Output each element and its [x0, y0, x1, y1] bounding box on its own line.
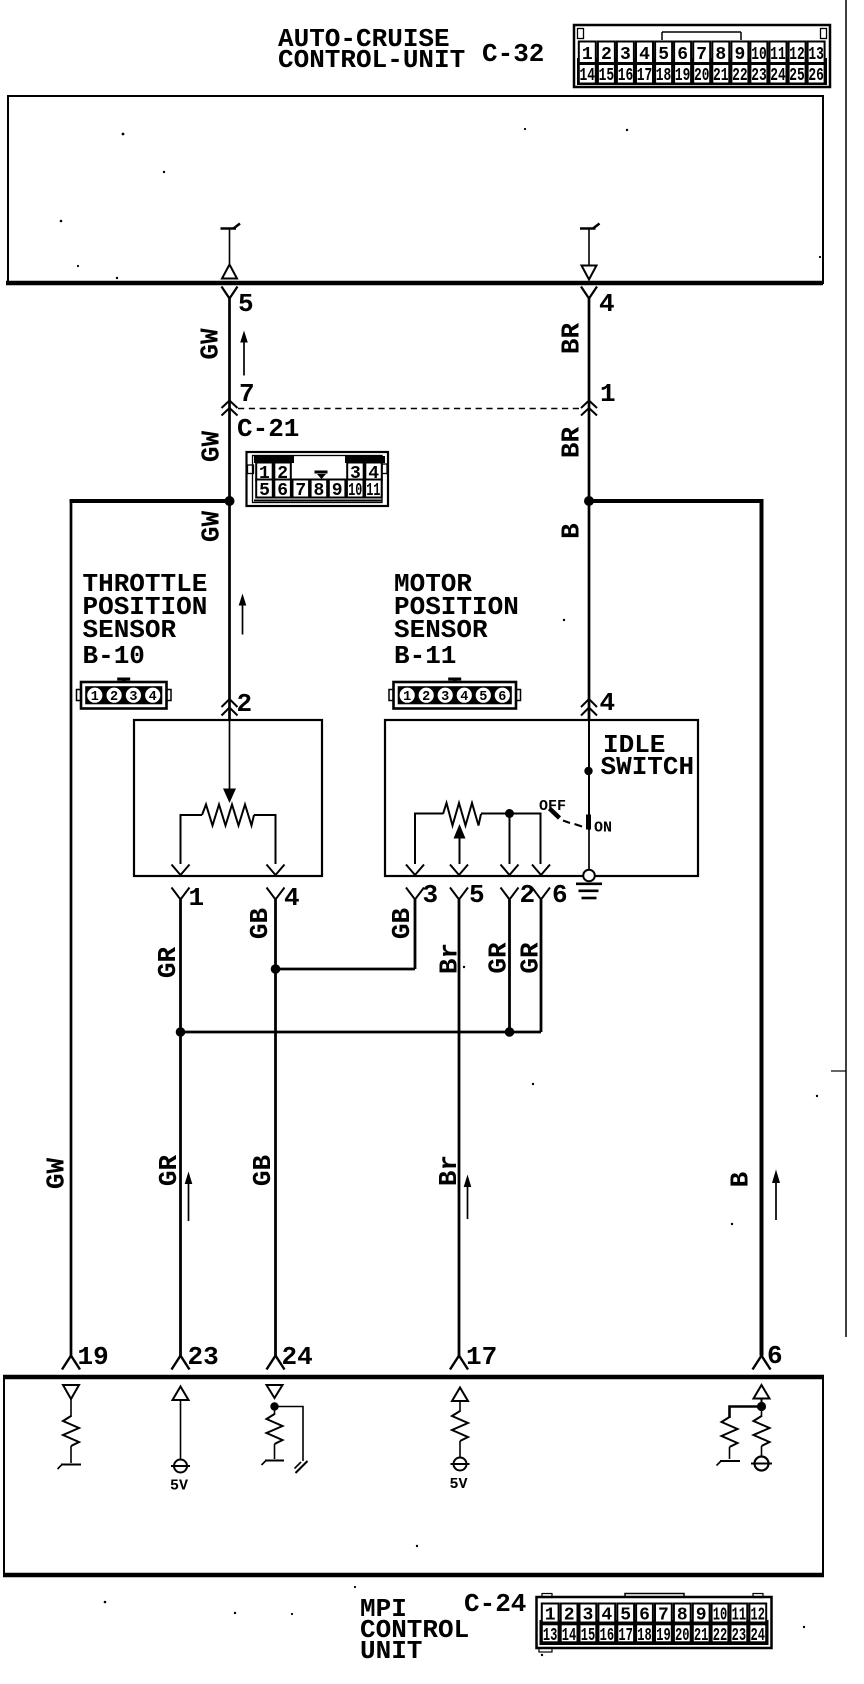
svg-text:GR: GR — [153, 947, 183, 979]
wire below resistor 17 — [459, 1441, 461, 1457]
junction dot GR link right — [505, 1027, 515, 1037]
wire pot right leg — [481, 814, 541, 865]
svg-text:C-32: C-32 — [482, 39, 544, 69]
fork at MPI pin 6 — [753, 1356, 771, 1370]
wire GR from motor pin6 down — [540, 900, 543, 1033]
wire GB from motor pin3 down — [414, 900, 417, 970]
svg-text:GB: GB — [248, 1155, 278, 1187]
svg-text:10: 10 — [713, 1606, 728, 1626]
svg-text:18: 18 — [637, 1626, 652, 1646]
junction dot pin 6 — [757, 1402, 766, 1411]
svg-text:GW: GW — [196, 328, 226, 360]
svg-text:15: 15 — [599, 66, 615, 86]
scan specks — [60, 128, 821, 1656]
svg-text:GB: GB — [387, 908, 417, 940]
svg-text:3: 3 — [620, 45, 631, 65]
svg-text:6: 6 — [639, 1606, 650, 1626]
svg-text:3: 3 — [441, 690, 449, 705]
svg-text:Br: Br — [434, 1155, 464, 1186]
svg-text:23: 23 — [732, 1626, 747, 1646]
svg-text:GW: GW — [42, 1158, 72, 1190]
svg-text:8: 8 — [715, 45, 726, 65]
fork at MPI pin 19 — [62, 1356, 80, 1370]
svg-text:24: 24 — [751, 1626, 766, 1646]
page border right — [845, 0, 847, 1337]
svg-text:22: 22 — [713, 1626, 728, 1646]
pin 1 interface at throttle box bottom — [172, 865, 190, 900]
pin 23 terminal triangle (up) — [173, 1387, 189, 1401]
throttle pot wiper arrow — [223, 721, 236, 803]
end bar pin6 — [717, 1461, 741, 1466]
wire pin6 to right resistor — [761, 1407, 763, 1418]
pin 3 interface at motor box bottom — [406, 865, 424, 900]
pin 4 fork below box — [581, 287, 597, 299]
svg-text:16: 16 — [600, 1626, 615, 1646]
resistor R (pin 19) — [63, 1416, 79, 1446]
svg-text:23: 23 — [751, 66, 767, 86]
svg-text:17: 17 — [637, 66, 653, 86]
5V source circle (pin 17) — [451, 1458, 470, 1471]
svg-text:GR: GR — [484, 942, 514, 974]
resistor R (pin 24) — [267, 1414, 283, 1444]
wire GW vertical (pin5 to throttle sensor) — [228, 299, 231, 721]
svg-text:SWITCH: SWITCH — [601, 752, 695, 782]
border tick — [831, 1070, 846, 1072]
wire GB from throttle pin4 down to MPI pin 24 — [274, 900, 277, 1356]
svg-text:19: 19 — [656, 1626, 671, 1646]
svg-text:2: 2 — [422, 690, 430, 705]
wire BR vertical (pin4 to motor sensor) — [588, 299, 591, 721]
svg-text:B-10: B-10 — [83, 641, 145, 671]
label MOTOR POSITION SENSOR B-11 — [394, 569, 519, 671]
wire below right resistor 6 — [761, 1446, 763, 1456]
wire pot right leg to pin 4 — [254, 815, 276, 864]
svg-text:25: 25 — [789, 66, 805, 86]
branch wire to chassis (pin 24) — [275, 1407, 304, 1462]
connector B-11 block — [389, 678, 521, 709]
chassis ground mark (pin 24) — [295, 1461, 308, 1473]
svg-text:4: 4 — [639, 45, 650, 65]
svg-text:3: 3 — [423, 880, 439, 910]
svg-text:GR: GR — [154, 1155, 184, 1187]
branch wire left (pin 6) — [730, 1407, 762, 1419]
wire B right rail down to pin 6 — [760, 501, 764, 1356]
svg-text:3: 3 — [582, 1606, 593, 1626]
svg-text:C-21: C-21 — [237, 414, 299, 444]
svg-text:7: 7 — [696, 45, 707, 65]
motor position sensor box B-11 — [385, 720, 698, 876]
svg-text:9: 9 — [696, 1606, 707, 1626]
svg-text:BR: BR — [557, 323, 587, 355]
pin 4 interface at throttle box bottom — [267, 865, 285, 900]
svg-text:5: 5 — [259, 481, 270, 501]
svg-text:1: 1 — [91, 690, 99, 705]
svg-text:B: B — [726, 1171, 756, 1187]
svg-text:6: 6 — [498, 690, 506, 705]
svg-text:20: 20 — [675, 1626, 690, 1646]
junction dot GR link left — [176, 1027, 186, 1037]
fork at MPI pin 24 — [267, 1356, 285, 1370]
wire junction to pin 2 — [509, 814, 511, 865]
svg-text:10: 10 — [348, 481, 362, 501]
wire below resistor 24 — [274, 1444, 276, 1459]
C-21 dashed link line — [238, 408, 581, 410]
pin 6 interface at motor box bottom — [532, 865, 550, 900]
5V source circle (pin 23) — [171, 1460, 190, 1473]
svg-text:4: 4 — [600, 688, 616, 718]
pin 24 terminal triangle (down) — [267, 1385, 283, 1398]
svg-text:OFF: OFF — [539, 798, 566, 815]
svg-text:14: 14 — [580, 66, 596, 86]
svg-text:GR: GR — [516, 942, 546, 974]
idle switch ON contact — [586, 815, 591, 830]
idle switch ground circle — [583, 870, 595, 882]
svg-text:18: 18 — [656, 66, 672, 86]
connector B-10 block — [77, 678, 172, 709]
arrow up beside GW wire — [240, 331, 248, 376]
svg-text:4: 4 — [601, 1606, 612, 1626]
arrow up beside GW wire (mid) — [239, 594, 247, 635]
fork at MPI pin 17 — [450, 1356, 468, 1370]
end bar pin19 — [58, 1465, 82, 1470]
wire pin19 internal — [70, 1399, 72, 1417]
svg-text:2: 2 — [564, 1606, 575, 1626]
auto-cruise control unit box — [6, 96, 823, 283]
pin 5 fork below box — [222, 287, 238, 299]
svg-text:24: 24 — [282, 1342, 313, 1372]
svg-text:5: 5 — [469, 880, 485, 910]
svg-text:5: 5 — [238, 289, 254, 319]
svg-text:2: 2 — [110, 690, 118, 705]
svg-text:C-24: C-24 — [464, 1589, 526, 1619]
svg-text:13: 13 — [808, 45, 824, 65]
svg-text:11: 11 — [366, 481, 380, 501]
junction dot on pot output — [505, 809, 514, 818]
label THROTTLE POSITION SENSOR B-10 — [83, 569, 208, 671]
svg-text:6: 6 — [767, 1341, 783, 1371]
source circle (pin 6) — [751, 1457, 772, 1471]
label AUTO-CRUISE CONTROL-UNIT — [278, 24, 465, 75]
svg-text:19: 19 — [675, 66, 691, 86]
junction dot pin 24 — [270, 1402, 278, 1410]
wire pin24 internal — [274, 1407, 276, 1416]
wire below left resistor 6 — [729, 1447, 731, 1459]
wire pin4 down to idle switch — [588, 721, 590, 830]
svg-text:5: 5 — [479, 690, 487, 705]
junction dot on idle switch wire — [584, 767, 592, 775]
wire GR from throttle pin1 down to MPI pin 23 — [179, 900, 182, 1356]
svg-text:22: 22 — [732, 66, 748, 86]
svg-text:7: 7 — [239, 379, 255, 409]
svg-text:5: 5 — [658, 45, 669, 65]
svg-text:17: 17 — [618, 1626, 633, 1646]
wire GR from motor pin2 down — [508, 900, 511, 1033]
arrow up on GR long wire — [185, 1172, 193, 1222]
wire Br from motor pin5 down to MPI pin 17 — [458, 900, 461, 1356]
svg-text:2: 2 — [237, 689, 253, 719]
svg-text:26: 26 — [808, 66, 824, 86]
svg-text:9: 9 — [734, 45, 745, 65]
wire pin17 internal — [459, 1401, 461, 1412]
svg-text:20: 20 — [694, 66, 710, 86]
svg-text:21: 21 — [694, 1626, 709, 1646]
wire GR horizontal link — [181, 1031, 542, 1034]
wire below resistor 19 — [70, 1446, 72, 1463]
svg-text:16: 16 — [618, 66, 634, 86]
svg-text:4: 4 — [460, 690, 468, 705]
svg-text:23: 23 — [188, 1342, 219, 1372]
resistor motor pot — [443, 803, 481, 826]
svg-text:8: 8 — [313, 481, 324, 501]
connector C-21 chevron left (pin 7) — [222, 401, 238, 416]
svg-text:4: 4 — [149, 690, 157, 705]
svg-text:ON: ON — [594, 820, 612, 837]
terminal pin 4 inside box (hook + down triangle) — [580, 224, 600, 280]
junction dot right (BR tee) — [584, 496, 594, 506]
svg-text:B-11: B-11 — [394, 641, 456, 671]
svg-text:17: 17 — [466, 1342, 497, 1372]
svg-text:1: 1 — [582, 45, 593, 65]
arrow up on B long wire — [772, 1170, 780, 1221]
motor pot wiper arrow — [454, 824, 466, 864]
svg-text:11: 11 — [732, 1606, 747, 1626]
svg-text:1: 1 — [403, 690, 411, 705]
svg-text:10: 10 — [751, 45, 767, 65]
svg-text:11: 11 — [770, 45, 786, 65]
svg-text:21: 21 — [713, 66, 729, 86]
thick wire junction to right rail — [589, 499, 764, 503]
svg-text:GW: GW — [197, 511, 227, 543]
label IDLE SWITCH — [601, 730, 695, 782]
wire pin23 internal — [180, 1400, 182, 1459]
wire switch to ground circle — [588, 829, 590, 869]
svg-text:GB: GB — [245, 908, 275, 940]
svg-text:7: 7 — [295, 481, 306, 501]
ground symbol — [576, 884, 602, 898]
svg-text:9: 9 — [332, 481, 343, 501]
label MPI CONTROL UNIT — [360, 1594, 469, 1666]
svg-text:GW: GW — [197, 431, 227, 463]
svg-text:2: 2 — [520, 880, 536, 910]
svg-text:8: 8 — [677, 1606, 688, 1626]
svg-text:5V: 5V — [450, 1476, 468, 1493]
wire pot left leg to pin 1 — [181, 815, 203, 864]
pin 17 terminal triangle (up) — [452, 1388, 468, 1402]
svg-text:14: 14 — [562, 1626, 577, 1646]
svg-text:24: 24 — [770, 66, 786, 86]
pin 2 chevron at throttle box top — [222, 699, 238, 716]
svg-text:12: 12 — [751, 1606, 766, 1626]
svg-text:13: 13 — [543, 1626, 558, 1646]
svg-text:6: 6 — [277, 481, 288, 501]
connector C-21 block — [247, 452, 389, 506]
idle switch OFF contact arm — [550, 809, 560, 819]
svg-text:CONTROL-UNIT: CONTROL-UNIT — [278, 45, 465, 75]
thick wire junction to left rail — [70, 499, 230, 503]
svg-text:UNIT: UNIT — [360, 1636, 422, 1666]
resistor R (pin 17) — [452, 1411, 468, 1441]
wire GW left rail down to pin 19 — [70, 501, 73, 1356]
svg-text:BR: BR — [557, 427, 587, 459]
svg-text:15: 15 — [581, 1626, 596, 1646]
junction dot left (GW tee) — [225, 496, 235, 506]
MPI control unit box — [3, 1377, 824, 1575]
svg-text:5: 5 — [620, 1606, 631, 1626]
svg-text:6: 6 — [552, 880, 568, 910]
wire GB horizontal link — [276, 968, 416, 971]
svg-text:1: 1 — [600, 379, 616, 409]
pin 5 interface at motor box bottom — [450, 865, 468, 900]
pin 6 terminal triangle (up) — [754, 1385, 770, 1399]
junction dot GB link — [271, 964, 281, 974]
terminal pin 5 inside box (hook + up triangle) — [221, 224, 241, 279]
svg-text:1: 1 — [545, 1606, 556, 1626]
svg-text:5V: 5V — [170, 1478, 188, 1495]
svg-text:4: 4 — [599, 289, 615, 319]
pin 2 interface at motor box bottom — [501, 865, 519, 900]
wire pin6 internal — [761, 1399, 763, 1405]
end bar pin24 — [262, 1461, 285, 1466]
resistor throttle pot — [202, 805, 254, 826]
svg-text:B: B — [557, 523, 587, 539]
svg-text:1: 1 — [189, 883, 205, 913]
svg-text:4: 4 — [284, 883, 300, 913]
connector C-24 — [537, 1594, 772, 1653]
resistor R (pin 6 left) — [722, 1417, 738, 1447]
resistor R (pin 6 right) — [754, 1416, 770, 1446]
arrow up on Br long wire — [464, 1175, 472, 1220]
connector C-21 chevron right (pin 1) — [581, 401, 597, 416]
svg-text:7: 7 — [658, 1606, 669, 1626]
svg-text:19: 19 — [78, 1342, 109, 1372]
svg-text:Br: Br — [435, 943, 465, 974]
idle switch dashed travel — [563, 821, 582, 827]
svg-text:2: 2 — [601, 45, 612, 65]
fork at MPI pin 23 — [172, 1356, 190, 1370]
connector C-32 — [574, 25, 830, 87]
throttle position sensor box B-10 — [134, 720, 322, 876]
wire pot left leg to pin 3 — [415, 814, 443, 865]
pin 19 terminal triangle (down) — [63, 1385, 79, 1399]
svg-text:12: 12 — [789, 45, 805, 65]
svg-text:6: 6 — [677, 45, 688, 65]
pin 4 chevron at motor box top — [581, 699, 597, 716]
svg-text:3: 3 — [129, 690, 137, 705]
